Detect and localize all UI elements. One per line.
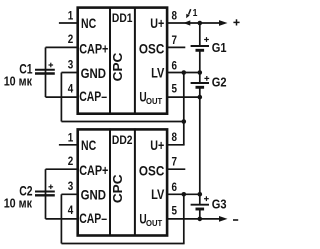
svg-text:NC: NC bbox=[81, 16, 96, 31]
svg-text:LV: LV bbox=[151, 65, 164, 80]
svg-text:DD1: DD1 bbox=[112, 11, 133, 25]
svg-text:OUT: OUT bbox=[146, 219, 162, 228]
svg-text:7: 7 bbox=[172, 155, 178, 169]
svg-text:7: 7 bbox=[172, 33, 178, 47]
svg-text:CAP–: CAP– bbox=[79, 89, 107, 104]
svg-text:2: 2 bbox=[68, 32, 74, 46]
svg-text:10 мк: 10 мк bbox=[4, 73, 33, 88]
svg-text:LV: LV bbox=[151, 187, 164, 202]
svg-text:G1: G1 bbox=[212, 40, 227, 55]
svg-text:U+: U+ bbox=[150, 16, 164, 31]
svg-text:2: 2 bbox=[68, 154, 74, 168]
svg-text:5: 5 bbox=[172, 82, 178, 96]
svg-text:6: 6 bbox=[172, 180, 178, 194]
svg-text:4: 4 bbox=[68, 203, 74, 217]
svg-text:G3: G3 bbox=[212, 197, 227, 212]
svg-text:8: 8 bbox=[172, 130, 178, 144]
svg-text:5: 5 bbox=[172, 203, 178, 217]
svg-text:6: 6 bbox=[172, 58, 178, 72]
svg-text:GND: GND bbox=[81, 66, 107, 81]
svg-text:CPC: CPC bbox=[110, 52, 125, 81]
svg-text:OUT: OUT bbox=[146, 97, 162, 106]
svg-text:1: 1 bbox=[68, 131, 74, 145]
svg-text:CAP–: CAP– bbox=[79, 211, 107, 226]
svg-text:OSC: OSC bbox=[139, 163, 165, 178]
svg-text:10 мк: 10 мк bbox=[4, 195, 33, 210]
svg-text:4: 4 bbox=[68, 81, 74, 95]
svg-text:3: 3 bbox=[68, 57, 74, 71]
svg-text:8: 8 bbox=[172, 8, 178, 22]
svg-text:CAP+: CAP+ bbox=[79, 163, 108, 178]
svg-text:1: 1 bbox=[68, 9, 74, 23]
svg-text:G2: G2 bbox=[212, 75, 227, 90]
svg-text:NC: NC bbox=[81, 138, 96, 153]
svg-text:CPC: CPC bbox=[110, 174, 125, 203]
svg-text:GND: GND bbox=[81, 188, 107, 203]
svg-text:DD2: DD2 bbox=[112, 133, 133, 147]
svg-text:U+: U+ bbox=[150, 138, 164, 153]
svg-text:3: 3 bbox=[68, 179, 74, 193]
svg-text:1: 1 bbox=[193, 7, 198, 19]
svg-text:CAP+: CAP+ bbox=[79, 41, 108, 56]
svg-text:OSC: OSC bbox=[139, 42, 165, 57]
